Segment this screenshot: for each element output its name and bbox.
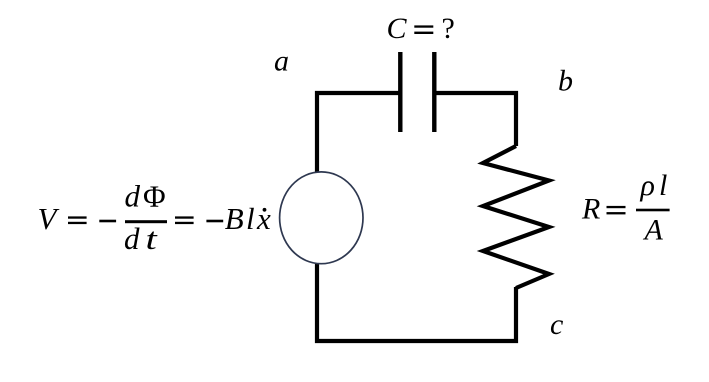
resistor value label R = rho*l / A <box>581 169 670 247</box>
svg-text:R: R <box>581 193 600 226</box>
svg-text:d: d <box>125 179 141 214</box>
resistor R <box>483 146 549 288</box>
svg-text:d: d <box>124 221 140 256</box>
svg-text:b: b <box>558 65 573 98</box>
svg-text:?: ? <box>442 12 455 45</box>
svg-text:t: t <box>146 221 158 255</box>
source value label V = -dPhi/dt = -Bl x-dot <box>38 179 272 257</box>
svg-text:V: V <box>38 201 60 236</box>
svg-text:x: x <box>256 201 271 236</box>
svg-text:B: B <box>225 201 244 236</box>
svg-text:c: c <box>550 308 563 341</box>
voltage source V (ellipse) <box>280 172 363 264</box>
svg-text:a: a <box>274 45 289 78</box>
node label c <box>550 308 563 341</box>
svg-text:l: l <box>659 169 667 202</box>
wire: capacitor right plate to node b down to resistor top <box>435 93 517 146</box>
node label b <box>558 65 573 98</box>
svg-text:C: C <box>387 12 408 45</box>
capacitor C <box>400 52 434 132</box>
svg-text:Φ: Φ <box>143 179 166 214</box>
svg-text:ρ: ρ <box>640 169 655 202</box>
wire: source top to node a to capacitor left plate <box>317 93 399 172</box>
svg-text:l: l <box>246 201 255 236</box>
node label a <box>274 45 289 78</box>
svg-text:A: A <box>643 214 664 247</box>
wire: resistor bottom to node c, bottom wire, left vertical to source bottom <box>317 263 516 341</box>
capacitor value label C = ? <box>387 12 455 45</box>
